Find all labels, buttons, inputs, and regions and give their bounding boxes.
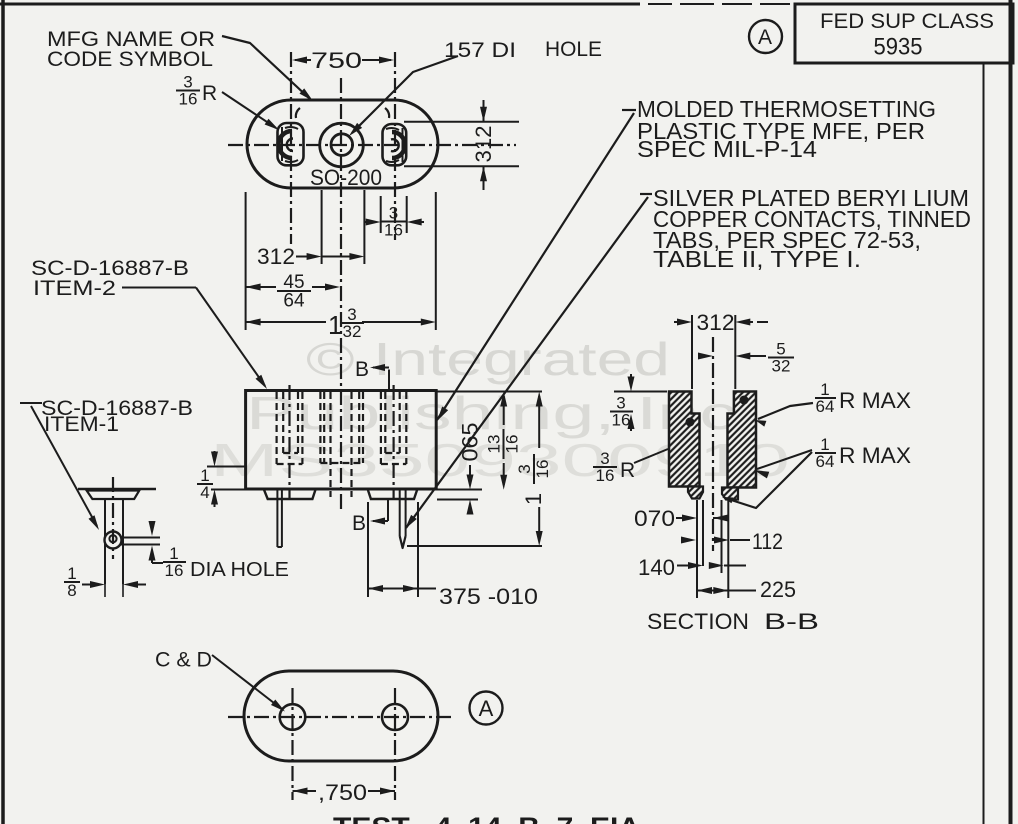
svg-text:312: 312 (697, 310, 735, 335)
svg-text:DIA HOLE: DIA HOLE (190, 559, 289, 581)
svg-text:16: 16 (533, 460, 552, 479)
svg-text:16: 16 (384, 220, 403, 239)
svg-text:FED SUP CLASS: FED SUP CLASS (820, 10, 994, 33)
svg-text:225: 225 (760, 577, 796, 602)
svg-text:R MAX: R MAX (839, 388, 911, 413)
svg-text:312: 312 (471, 126, 496, 163)
svg-text:750: 750 (311, 48, 362, 73)
svg-text:R MAX: R MAX (839, 443, 911, 468)
svg-text:112: 112 (752, 529, 783, 554)
svg-text:375 -010: 375 -010 (439, 584, 538, 609)
svg-text:SO-200: SO-200 (310, 165, 382, 190)
svg-text:312: 312 (257, 244, 295, 269)
svg-text:157 DI: 157 DI (444, 39, 516, 62)
svg-text:SECTION: SECTION (647, 609, 749, 634)
svg-text:4: 4 (200, 483, 209, 502)
svg-text:64: 64 (283, 291, 305, 312)
svg-text:1: 1 (328, 310, 342, 340)
svg-text:ITEM-1: ITEM-1 (44, 413, 119, 436)
svg-text:R: R (620, 459, 635, 482)
svg-text:13: 13 (485, 435, 504, 454)
svg-text:SPEC MIL-P-14: SPEC MIL-P-14 (637, 136, 817, 162)
svg-text:A: A (758, 26, 772, 49)
svg-text:B-B: B-B (764, 609, 819, 634)
svg-text:CODE SYMBOL: CODE SYMBOL (47, 48, 213, 71)
svg-text:ITEM-2: ITEM-2 (33, 277, 116, 300)
svg-text:32: 32 (772, 356, 791, 375)
svg-text:16: 16 (179, 89, 198, 108)
svg-text:TABLE II, TYPE I.: TABLE II, TYPE I. (653, 246, 861, 272)
svg-text:TEST 4 14 B 7 EIA: TEST 4 14 B 7 EIA (333, 812, 640, 824)
svg-text:R: R (202, 82, 217, 105)
svg-text:16: 16 (612, 410, 631, 429)
svg-text:16: 16 (503, 435, 522, 454)
svg-text:HOLE: HOLE (545, 38, 602, 61)
svg-text:1: 1 (521, 493, 546, 505)
svg-text:C & D: C & D (155, 649, 212, 672)
svg-text:140: 140 (638, 555, 675, 580)
svg-text:065: 065 (458, 423, 483, 462)
svg-text:070: 070 (634, 506, 675, 531)
svg-text:32: 32 (343, 322, 362, 341)
svg-text:8: 8 (67, 581, 76, 600)
svg-text:,750: ,750 (318, 780, 367, 805)
svg-text:B: B (355, 358, 369, 381)
svg-text:64: 64 (816, 452, 835, 471)
svg-text:A: A (479, 696, 494, 721)
svg-text:B: B (352, 512, 366, 535)
svg-text:5935: 5935 (874, 34, 923, 61)
svg-text:64: 64 (816, 397, 835, 416)
svg-text:3: 3 (515, 464, 534, 473)
svg-text:16: 16 (165, 561, 184, 580)
svg-text:16: 16 (596, 466, 615, 485)
